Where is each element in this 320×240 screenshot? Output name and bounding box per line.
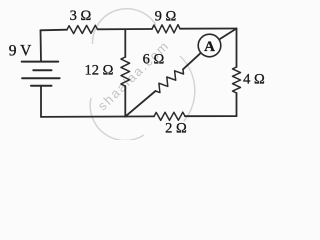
- wire top-left: [41, 29, 68, 32]
- svg-text:6 Ω: 6 Ω: [143, 52, 165, 68]
- battery B1 plate short bottom: [31, 85, 52, 87]
- watermark circle arc top: [92, 9, 156, 44]
- resistor R1 3ohm: [67, 25, 98, 33]
- resistor R2 9ohm: [152, 25, 180, 33]
- svg-text:9 Ω: 9 Ω: [155, 9, 177, 25]
- watermark circle arc bottom-left: [90, 98, 144, 140]
- wire middle branch lower: [124, 86, 126, 117]
- wire top-right: [180, 28, 237, 30]
- svg-text:4 Ω: 4 Ω: [243, 72, 265, 88]
- wire diagonal to ammeter: [183, 53, 201, 70]
- svg-text:A: A: [204, 39, 215, 55]
- wire ammeter to corner: [219, 29, 236, 40]
- wire diagonal lower: [125, 91, 155, 117]
- battery B1 plate long bottom: [22, 77, 60, 79]
- ammeter A circle: [198, 34, 221, 57]
- battery B1 plate long top: [22, 61, 59, 63]
- wire right branch lower: [236, 93, 238, 116]
- resistor R3 12ohm: [121, 57, 130, 86]
- wire top-middle: [98, 28, 153, 30]
- svg-text:9 V: 9 V: [9, 43, 32, 60]
- battery B1 plate short: [33, 69, 51, 71]
- wire left branch lower: [40, 86, 42, 117]
- resistor R5 4ohm: [233, 67, 241, 93]
- wire bottom-right: [185, 115, 237, 117]
- resistor R4 6ohm: [156, 69, 184, 92]
- resistor R6 2ohm: [154, 112, 185, 120]
- svg-text:2 Ω: 2 Ω: [165, 121, 187, 137]
- wire bottom-left: [41, 115, 154, 118]
- wire right branch upper: [236, 29, 238, 68]
- wire middle branch upper: [124, 30, 126, 57]
- wire left branch upper: [40, 30, 43, 61]
- svg-text:3 Ω: 3 Ω: [70, 8, 92, 24]
- watermark circle arc right: [180, 56, 195, 121]
- svg-text:12 Ω: 12 Ω: [85, 63, 114, 79]
